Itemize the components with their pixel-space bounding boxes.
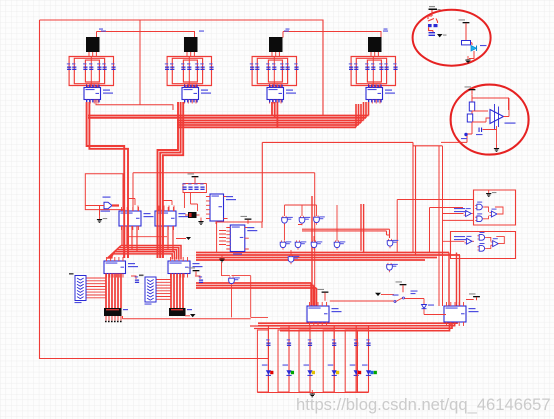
wire: connector J4 pins <box>371 52 378 57</box>
driver U7 <box>206 194 236 221</box>
wire: D7 to U14 <box>424 309 446 315</box>
wire: clock loop box <box>85 174 123 210</box>
capacitor C12 <box>72 63 76 70</box>
wire: tuning loop mid C2b <box>172 58 202 83</box>
wire: U5 bottom pins to band <box>122 226 137 252</box>
gate G17 <box>477 243 487 251</box>
wire: cluster box RS2 <box>451 232 516 259</box>
gate G2 74LS08 <box>299 216 310 225</box>
wire: tuning loop mid C4b <box>356 58 386 83</box>
gate G13 <box>475 213 485 221</box>
wire: risers into U14 <box>449 253 460 307</box>
wire: tuning loop centre leg <box>90 57 92 86</box>
power flag VCC left <box>189 267 200 275</box>
wire: riser x414 <box>415 146 417 255</box>
capacitor C14 <box>89 63 93 70</box>
capacitor C31 <box>250 63 254 70</box>
resistor network RN1 <box>69 273 86 303</box>
LED D5 <box>350 365 362 376</box>
capacitor C22 <box>194 183 198 190</box>
capacitor C25 <box>135 276 139 283</box>
wire: gate G7 input drop <box>291 205 337 256</box>
highlight ellipse 1 <box>413 10 491 66</box>
gate G4 74LS32 <box>280 240 291 249</box>
LED D3 <box>304 365 316 376</box>
capacitor C41 <box>349 63 353 70</box>
LED cell 3 frame <box>299 330 310 392</box>
power flag 5V right of U7 <box>241 216 252 224</box>
wire: U14 to VCC flag <box>466 298 474 301</box>
label 74LS04 b <box>454 236 465 237</box>
wire: antenna feed ANT3-ANT4 <box>283 32 381 38</box>
wire: tuning loop outer C2a <box>167 57 211 86</box>
wire: bus drop bundle at x362 <box>361 204 364 253</box>
net label ANT3 <box>286 29 290 30</box>
wire: to ground ellipse 2 <box>483 126 497 147</box>
gate G5 74LS32 <box>295 240 306 249</box>
wire: LED column 2 <box>288 326 290 393</box>
capacitor C23 <box>181 63 185 70</box>
label 74LS04 b line2 <box>454 239 467 240</box>
wire: main bus pair y112 <box>88 116 369 118</box>
wire: cluster1 feed y220 <box>443 219 474 221</box>
wire: cluster1 feed y199 <box>397 200 473 253</box>
wire: bundle overlay over U5 <box>124 209 128 258</box>
wire: tuning loop inner C1c <box>85 60 99 82</box>
wire: connector J3 pins <box>272 52 279 57</box>
capacitor C42 <box>354 63 358 70</box>
capacitor C17 <box>111 63 115 70</box>
LED cell 5 frame <box>345 330 356 392</box>
LED D10 (cyan) <box>469 45 487 59</box>
wire: RS2 links <box>443 237 504 249</box>
wire: tuning loop mid C3b <box>257 58 287 83</box>
junction flag right of U6 <box>186 237 191 240</box>
svg-text:https://blog.csdn.net/qq_46146: https://blog.csdn.net/qq_46146657 <box>296 395 551 414</box>
wire: loop to U1 <box>88 86 97 88</box>
capacitor C36 <box>285 63 289 70</box>
capacitor C22 <box>170 63 174 70</box>
ground below X1 <box>97 216 107 223</box>
wire: RN2 fan to U10 bundle <box>157 280 172 300</box>
capacitor C26 <box>200 63 204 70</box>
LED cell 2 frame <box>278 330 289 392</box>
wire: U6 top pins <box>159 206 174 212</box>
power flag 5V in ellipse 1 <box>459 19 470 27</box>
label below U8 <box>233 254 242 255</box>
ground below LED rail <box>310 390 315 397</box>
wire: signal into ellipse 2 <box>441 134 472 142</box>
net label ANT4 <box>384 29 388 30</box>
wire: connector J1 pins <box>89 52 96 57</box>
wire: bundle overlay over U6 <box>158 209 163 258</box>
gate G1 74LS08 <box>282 216 293 225</box>
wire: module1 drop bundle to U9 <box>87 102 128 258</box>
wire: tuning loop inner C3c <box>268 60 282 82</box>
wire: flag to switch <box>381 294 394 296</box>
wire: opamp inputs <box>472 111 490 122</box>
decoder U13 <box>307 302 342 326</box>
RF coil module 4 <box>349 31 398 104</box>
wire: cluster box RS1 <box>474 190 516 225</box>
highlight ellipse 2 <box>451 85 529 155</box>
gate G8 74LS32 <box>387 239 398 248</box>
wire: cluster1 feed y207 <box>430 208 464 253</box>
pin numbers U4 <box>368 85 382 103</box>
inverter G15 <box>464 236 474 244</box>
ground at RS1 top <box>486 190 496 197</box>
wire: RS1 latch links <box>485 207 504 219</box>
capacitor C23 <box>200 183 204 190</box>
wire: U9 aux <box>131 276 136 279</box>
wire: gate row1-row2 links <box>285 224 315 241</box>
wire: gate row1 inputs <box>285 205 317 216</box>
wire: LED column 3 <box>309 326 311 393</box>
resistor pack RP1 (black) <box>104 308 128 316</box>
gate G9 74LS32 <box>288 255 299 264</box>
wire: U1 out to U2 column <box>96 100 173 111</box>
buffer G18 <box>491 238 501 246</box>
RF coil module 2 <box>165 31 214 104</box>
LED cell 4 frame <box>323 330 334 392</box>
wire: bottom bus to U14 <box>258 310 457 331</box>
capacitor C11 <box>67 63 71 70</box>
junction flag right of RP2 <box>190 314 196 317</box>
power flag VCC in ellipse 2 <box>465 86 476 94</box>
LED cell 1 frame <box>257 330 268 392</box>
wire: RP2 to flag <box>185 315 190 317</box>
gate G7 74LS32 <box>334 240 345 249</box>
switch S1 <box>393 295 405 303</box>
RF front-end IC U4 <box>366 84 395 104</box>
capacitor C40 <box>429 32 436 36</box>
capacitor C31 <box>287 339 291 346</box>
wire: jogs above U5/U6 <box>128 193 198 212</box>
LED D2 <box>283 365 295 376</box>
gate G16 <box>477 232 487 240</box>
RP1 pin dots <box>105 321 122 323</box>
power flag VCC above C20 <box>188 173 199 183</box>
power flag VCC right of U14 <box>469 293 480 300</box>
wire: X1 output (thick) <box>112 204 119 206</box>
resistor network RN2 <box>139 275 156 305</box>
resistor pack RP2 (black) <box>169 308 192 316</box>
capacitor C24 <box>187 63 191 70</box>
wire: tuning loop outer C1a <box>69 57 113 86</box>
wire: tuning loop outer C3a <box>252 57 296 86</box>
wire: U10 to RP2 bundle <box>171 274 183 309</box>
ground near U7 <box>198 218 203 225</box>
gate G3 74LS08 <box>314 215 325 224</box>
wire: decoupling rail <box>183 184 207 193</box>
resistor R10 <box>462 27 473 45</box>
ground in ellipse 2 <box>494 145 499 152</box>
ground below U8 <box>219 255 224 262</box>
inverter G11 <box>464 208 474 216</box>
wire: LED column 1 <box>267 326 269 393</box>
wire: bundle U10 to U13 y283-288 <box>196 283 316 306</box>
wire: sheet border left and bottom <box>40 20 269 359</box>
wire: tuning loop inner C4c <box>367 60 381 82</box>
latch U9 <box>104 257 138 278</box>
power flag VCC mid <box>396 281 407 292</box>
buffer G14 <box>489 209 499 217</box>
wire: drop at x312 to U13 <box>311 196 313 306</box>
RF front-end IC U3 <box>267 84 296 104</box>
wire: main bus quad y119-126 <box>177 120 364 127</box>
junction flag <box>375 293 381 296</box>
pin numbers U1 <box>86 85 100 103</box>
LED D4 <box>328 365 340 376</box>
wire: switch to D7 <box>405 299 425 305</box>
capacitor C20 <box>182 183 186 190</box>
polarized capacitor C42 <box>461 133 468 139</box>
gate G10 74LS32 <box>387 263 398 272</box>
wire: ellipse2 supply loop <box>472 95 509 135</box>
wire: U5/U6 to U9/U10 transfer band <box>107 246 181 260</box>
wire: LED column 6 <box>368 326 370 393</box>
counter U6 <box>155 207 189 230</box>
RF front-end IC U1 <box>84 84 113 104</box>
capacitor C15 <box>97 63 101 70</box>
antenna connector J2 <box>184 37 198 52</box>
capacitor C33 <box>266 63 270 70</box>
gate G12 <box>475 202 485 210</box>
wire: tuning loop centre leg <box>273 57 275 86</box>
wire: U5 top pins <box>123 206 138 212</box>
label 74LS04 line2 <box>454 211 467 212</box>
label 74LS04 <box>454 208 465 209</box>
op-amp U15 <box>490 104 516 129</box>
wire: LED column 5 <box>355 326 357 393</box>
wire: U10 aux <box>195 276 200 279</box>
wire: inter-latch links <box>129 237 186 239</box>
label R9 <box>411 291 418 292</box>
gate G19 <box>229 276 240 285</box>
antenna connector J1 <box>86 37 100 52</box>
wire: feedback loop y172 <box>133 173 315 306</box>
wire: U13 to switch <box>330 300 394 302</box>
counter U5 <box>119 207 154 230</box>
capacitor C25 <box>195 63 199 70</box>
resistor R12 <box>467 114 472 122</box>
capacitor C32 <box>255 63 259 70</box>
capacitor C35 <box>366 339 370 346</box>
jumper W1 (black) <box>185 212 200 218</box>
capacitor C16 <box>102 63 106 70</box>
power flag VCC above U13 <box>318 289 329 301</box>
net label module 3 <box>284 31 289 32</box>
antenna connector J3 <box>269 37 283 52</box>
wire: mid data bundle y251-258 <box>196 253 460 261</box>
wire: RS1 inputs <box>443 213 464 215</box>
wire: RP1 area to LED zone <box>123 316 251 319</box>
ground in ellipse 1 right <box>465 56 470 63</box>
capacitor C47 <box>393 63 397 70</box>
capacitor C37 <box>294 63 298 70</box>
wire: U8 left pin feeds <box>219 231 226 245</box>
net label ANT1 <box>99 29 103 30</box>
register U8 <box>226 225 257 252</box>
wire: gate row link y230 <box>302 229 390 238</box>
LED cell 6 frame <box>358 330 369 392</box>
wire: loop around U8 <box>217 222 262 252</box>
LED D1 <box>262 365 274 376</box>
wire: connector J2 pins <box>187 52 194 57</box>
capacitor C21 <box>188 183 192 190</box>
capacitor C45 <box>379 63 383 70</box>
wire: tuning loop inner C2c <box>183 60 197 82</box>
capacitor C32 <box>308 339 312 346</box>
net label module 1 <box>101 31 106 32</box>
capacitor C27 <box>209 63 213 70</box>
capacitor C34 <box>272 63 276 70</box>
wire: tuning loop outer C4a <box>351 57 395 86</box>
wire: U9 to RP1 bundle <box>106 274 121 309</box>
antenna connector J4 <box>368 37 382 52</box>
oscillator gate X1 <box>101 197 113 212</box>
wire: LED column 4 <box>333 326 335 393</box>
diode D7 <box>422 305 435 309</box>
net label module 4 <box>383 31 388 32</box>
wire: LED top rails <box>250 326 380 329</box>
pin numbers U2 <box>184 85 198 103</box>
wire: loop to U2 <box>186 86 195 88</box>
wire: module4 drop to bus <box>356 102 369 127</box>
wire: tuning loop mid C1b <box>74 58 104 83</box>
wire: module2 drop bundle to U10 <box>158 102 184 258</box>
capacitor C41 <box>476 128 483 136</box>
wire: tuning loop centre leg <box>188 57 190 86</box>
capacitor C33 <box>332 339 336 346</box>
decoder U14 <box>444 302 479 326</box>
LED D6 <box>362 365 377 376</box>
latch U10 <box>168 257 203 278</box>
wire: tuning loop centre leg <box>372 57 374 86</box>
power flag VCC in ellipse 1 <box>429 6 441 16</box>
capacitor C46 <box>384 63 388 70</box>
capacitor C43 <box>365 63 369 70</box>
wire: RN1 fan to U9 bundle <box>87 278 107 298</box>
capacitor C26 <box>199 276 203 283</box>
wire: loop to U4 <box>370 86 379 88</box>
capacitor C35 <box>280 63 284 70</box>
wire: module3 drop to bus <box>272 102 277 127</box>
wire: RP1 tails <box>106 316 121 321</box>
wire: U6 bottom pins to band <box>158 226 173 252</box>
capacitor C21 <box>165 63 169 70</box>
gate G6 74LS32 <box>311 240 322 249</box>
resistor R11 <box>469 102 474 111</box>
capacitor C13 <box>83 63 87 70</box>
wire: sheet border top, right drop at x=323 <box>40 20 324 116</box>
RF front-end IC U2 <box>182 84 211 104</box>
wire: U7 ground lead <box>215 221 217 224</box>
wire: right riser bundle x440 <box>439 146 443 306</box>
wire: G19 network to LED rail <box>222 262 269 317</box>
wire: opamp output feedback <box>504 98 510 117</box>
wire: loop to U3 <box>271 86 280 88</box>
pin numbers U3 <box>269 85 283 103</box>
wire: antenna feed ANT1-ANT2 <box>97 32 195 38</box>
wire: feedback loop y142 <box>262 142 442 252</box>
transistor Q1 <box>428 16 438 32</box>
capacitor C44 <box>371 63 375 70</box>
value label R9 <box>411 293 416 294</box>
RF coil module 1 <box>67 31 116 104</box>
junction flag in ellipse 1 <box>437 34 443 37</box>
capacitor C30 <box>266 339 270 346</box>
capacitor C34 <box>354 339 358 346</box>
wire: LED bottom rail <box>257 392 368 394</box>
net label module 2 <box>199 31 204 32</box>
wire: X1 input and ground branch <box>85 206 104 216</box>
wire: vertical from top rail to module row <box>139 20 141 105</box>
RF coil module 3 <box>250 31 299 104</box>
